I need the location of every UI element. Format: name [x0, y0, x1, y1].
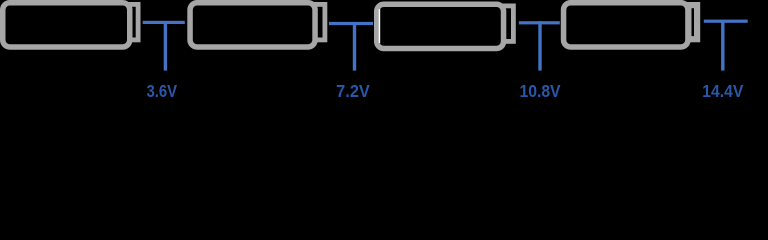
svg-text:10.8V: 10.8V — [519, 81, 560, 101]
svg-text:7.2V: 7.2V — [336, 81, 370, 101]
svg-text:14.4V: 14.4V — [702, 81, 743, 101]
svg-text:3.6V: 3.6V — [147, 82, 178, 101]
